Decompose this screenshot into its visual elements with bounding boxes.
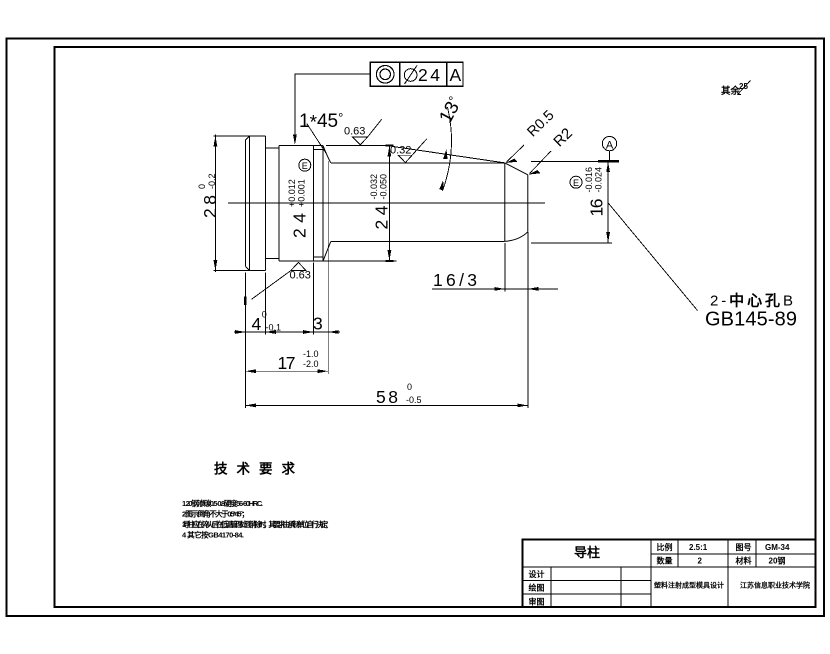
- svg-text:0.63: 0.63: [344, 126, 365, 138]
- svg-text:20钢: 20钢: [769, 556, 786, 566]
- svg-text:其余: 其余: [721, 85, 741, 97]
- datum A bar: [598, 160, 619, 162]
- leader to 2-中心孔B text: [608, 203, 697, 311]
- extension line thick mark: [244, 297, 247, 306]
- svg-text:江苏信息职业技术学院: 江苏信息职业技术学院: [740, 581, 810, 590]
- svg-text:+0.001: +0.001: [297, 179, 307, 207]
- R0.5 annotation: [507, 145, 525, 162]
- dimension 16 -0.016/-0.024 with E and datum A (right end): [531, 161, 619, 243]
- dimension chain 4 / 3: [234, 331, 340, 333]
- dimension 24 -0.032/-0.050 (rotated, with dim line): [323, 146, 397, 261]
- svg-text:3: 3: [313, 314, 323, 334]
- R2 annotation: [530, 151, 552, 174]
- 13 degree angle annotation: [436, 94, 467, 127]
- part outline: right end chamfer and face: [504, 163, 528, 242]
- surface mark 0.63 triangle (top): [352, 119, 381, 144]
- frame text Ø24: [404, 66, 417, 85]
- svg-text:+0.012: +0.012: [287, 179, 297, 207]
- part outline: cone transition after groove: [323, 146, 331, 261]
- svg-text:0: 0: [407, 382, 412, 392]
- technical requirements lines: [182, 498, 329, 540]
- svg-text:-1.0: -1.0: [303, 349, 319, 359]
- svg-text:E: E: [573, 178, 579, 188]
- E circle symbol (16 dim): [570, 176, 582, 188]
- svg-text:A: A: [606, 139, 614, 151]
- svg-text:0.63: 0.63: [290, 270, 311, 282]
- svg-text:比例: 比例: [657, 542, 673, 552]
- svg-text:塑料注射成型模具设计: 塑料注射成型模具设计: [654, 581, 724, 590]
- inner border frame: [55, 47, 816, 607]
- svg-text:导柱: 导柱: [574, 545, 600, 560]
- svg-text:1 20钢渗碳0.5-0.8硬度56-60HRC.: 1 20钢渗碳0.5-0.8硬度56-60HRC.: [182, 498, 263, 508]
- part outline: shaft Ø16.6 working section: [331, 163, 505, 242]
- dimension 58 0/-0.5: [245, 404, 527, 406]
- centerline: [228, 202, 545, 204]
- svg-text:材料: 材料: [736, 556, 752, 566]
- svg-text:A: A: [450, 65, 462, 85]
- concentricity tolerance frame: [370, 62, 463, 86]
- svg-text:审图: 审图: [529, 597, 545, 607]
- svg-text:17: 17: [278, 353, 296, 373]
- datum A circle flag: [602, 136, 616, 161]
- svg-text:2 图示倒角不大于0.5*45°；: 2 图示倒角不大于0.5*45°；: [182, 509, 249, 520]
- part outline: press-fit section Ø24: [279, 146, 323, 262]
- svg-text:3 导柱应在淬火后在低温管理处理消除时，其要求由承制单位自行: 3 导柱应在淬火后在低温管理处理消除时，其要求由承制单位自行决定;: [182, 519, 329, 529]
- svg-text:图号: 图号: [736, 543, 752, 552]
- svg-text:GM-34: GM-34: [765, 543, 790, 552]
- svg-text:2.5:1: 2.5:1: [689, 543, 708, 552]
- svg-text:0: 0: [197, 184, 207, 189]
- dimension 16/3: [432, 288, 558, 290]
- leader from 1*45 to flange chamfer: [307, 123, 326, 152]
- part outline: 13 deg taper silhouette line: [392, 146, 505, 163]
- svg-text:-0.2: -0.2: [207, 173, 217, 189]
- svg-text:0.32: 0.32: [390, 145, 411, 157]
- svg-text:-0.032: -0.032: [369, 174, 379, 200]
- svg-text:-2.0: -2.0: [303, 359, 319, 369]
- part outline: neck between flange and press section: [265, 148, 279, 258]
- svg-text:0: 0: [262, 310, 267, 320]
- svg-text:-0.024: -0.024: [594, 167, 604, 193]
- svg-text:1*45°: 1*45°: [299, 110, 343, 134]
- part outline: ring groove: [314, 146, 324, 262]
- svg-text:E: E: [302, 161, 308, 171]
- svg-text:设计: 设计: [529, 569, 545, 579]
- svg-text:-0.050: -0.050: [379, 174, 389, 200]
- part outline: flange Ø28: [245, 136, 265, 271]
- extension lines below part: [245, 161, 527, 408]
- svg-text:-0.5: -0.5: [406, 395, 422, 405]
- svg-text:16/3: 16/3: [433, 270, 477, 290]
- dimension 28 0/-0.2 (flange diameter): [213, 135, 249, 273]
- svg-text:4: 4: [252, 314, 262, 334]
- svg-text:4 其它按GB4170-84.: 4 其它按GB4170-84.: [182, 530, 244, 540]
- svg-text:-0.016: -0.016: [584, 167, 594, 193]
- dimension 17 -1.0/-2.0: [245, 370, 328, 372]
- svg-text:数量: 数量: [657, 556, 673, 566]
- svg-text:2: 2: [698, 557, 703, 566]
- surface mark top-right corner (其余): [721, 81, 751, 98]
- E circle symbol (press section): [299, 159, 311, 171]
- svg-text:GB145-89: GB145-89: [705, 309, 797, 331]
- title block grid: [522, 540, 815, 608]
- svg-text:16: 16: [587, 199, 607, 217]
- svg-text:-0.1: -0.1: [266, 323, 282, 333]
- dimension 24 +0.012/+0.001 with E (press section, rotated text inside part): [287, 179, 310, 238]
- svg-text:技术要求: 技术要求: [214, 461, 304, 477]
- svg-text:25: 25: [739, 82, 748, 91]
- frame leader: [295, 74, 370, 140]
- svg-text:绘图: 绘图: [529, 583, 545, 593]
